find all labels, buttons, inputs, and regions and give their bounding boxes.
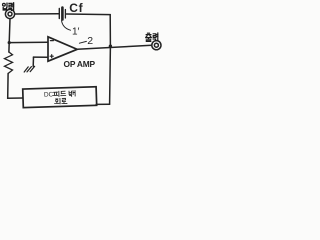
svg-text:1′: 1′ [72,27,80,38]
svg-text:OP AMP: OP AMP [64,59,96,69]
svg-text:Cf: Cf [69,1,83,15]
svg-text:2: 2 [87,35,93,47]
svg-text:DC: DC [44,91,54,98]
